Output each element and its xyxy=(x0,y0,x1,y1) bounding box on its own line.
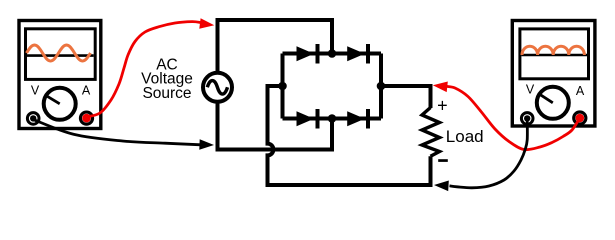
svg-text:V: V xyxy=(31,84,40,98)
left meter red jack xyxy=(80,112,92,124)
svg-text:V: V xyxy=(526,83,535,97)
red test lead right xyxy=(446,86,580,149)
svg-text:A: A xyxy=(82,84,91,98)
black test lead right xyxy=(450,119,528,188)
svg-text:+: + xyxy=(437,95,448,115)
right meter screen xyxy=(520,29,589,79)
right meter rectified trace xyxy=(522,46,584,55)
node dot top xyxy=(328,49,337,58)
diode D4 (bottom-right) xyxy=(347,111,365,126)
right meter dial xyxy=(537,87,569,119)
svg-text:A: A xyxy=(576,84,585,98)
left meter black jack xyxy=(27,113,39,125)
diode D2 (top-right) xyxy=(347,46,365,61)
bridge rectangle wires xyxy=(283,54,382,119)
node dot left xyxy=(278,82,287,91)
diode D3 (bottom-left) xyxy=(297,111,315,126)
node dot bottom xyxy=(328,114,337,123)
left meter screen xyxy=(26,29,96,80)
right meter red jack xyxy=(574,112,586,124)
left meter needle xyxy=(46,95,60,104)
right meter screen centerline xyxy=(522,54,588,57)
left meter screen centerline xyxy=(27,54,94,57)
red test lead left xyxy=(87,22,202,117)
label - xyxy=(438,159,448,162)
left meter dial xyxy=(44,88,76,120)
label AC Voltage Source xyxy=(141,57,193,103)
svg-text:Source: Source xyxy=(142,85,191,102)
resistor Load xyxy=(422,108,440,157)
wire: AC source top to bridge top node xyxy=(218,20,333,73)
diode D1 (top-left) xyxy=(297,46,315,61)
right meter needle xyxy=(540,94,553,103)
svg-text:Load: Load xyxy=(446,127,484,146)
wire: AC source bottom to bridge bottom node xyxy=(218,101,333,150)
AC voltage source V1 xyxy=(203,73,232,102)
node dot right xyxy=(377,82,386,91)
left meter M1 body xyxy=(19,21,101,129)
right meter M2 body xyxy=(512,21,595,127)
right meter black jack xyxy=(521,113,533,125)
left meter sine trace xyxy=(27,45,91,61)
wire: bridge left node to bottom rail (with hop over AC return) and bottom rail to load bottom xyxy=(268,86,431,185)
wire: bridge right node to load top xyxy=(381,86,431,108)
black test lead left xyxy=(33,120,201,145)
